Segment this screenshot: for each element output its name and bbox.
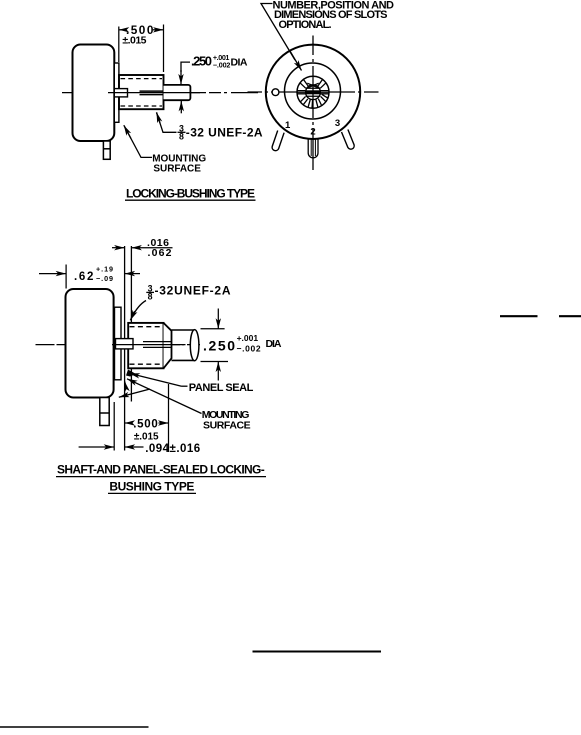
terminal stub (drawing 1): [103, 141, 110, 159]
dimension .62 +.19/-.09 (drawing 2): [39, 265, 140, 289]
middle circle: [285, 63, 341, 119]
bottom center rule: [253, 651, 382, 653]
svg-text:DIA: DIA: [231, 56, 248, 68]
dimension .250 DIA leader (drawing 1): [181, 62, 190, 113]
svg-text:3: 3: [335, 118, 340, 129]
svg-text:8: 8: [179, 132, 184, 142]
hub horizontal notches: [297, 91, 328, 94]
hub outer circle (bushing): [297, 76, 329, 108]
hub inner circle (shaft): [306, 85, 321, 100]
centerline (side view, drawing 1): [62, 92, 258, 94]
svg-text:SURFACE: SURFACE: [203, 420, 251, 432]
body outline (drawing 1): [73, 45, 115, 142]
shaft slot hidden lines (drawing 2): [143, 342, 172, 348]
svg-text:−.09: −.09: [96, 274, 113, 283]
terminal 1 (left lug): [272, 131, 284, 151]
svg-text:.500: .500: [133, 419, 158, 431]
svg-text:.094±.016: .094±.016: [145, 443, 200, 455]
dimension .016/.062 (top, drawing 2): [112, 247, 173, 249]
svg-text:±.015: ±.015: [134, 431, 159, 442]
panel line B: [130, 246, 132, 402]
panel line A (mounting surface plane): [124, 246, 126, 451]
body outline (drawing 2): [66, 289, 114, 398]
shaft (drawing 2): [172, 330, 199, 361]
dimension .094 +-.016 (drawing 2): [79, 402, 144, 451]
terminal 2 (center lug): [308, 139, 318, 158]
thread callout 3/8-32UNEF-2A (drawing 2): [130, 301, 146, 321]
svg-text:.250: .250: [191, 54, 212, 69]
svg-text:-32UNEF-2A: -32UNEF-2A: [155, 283, 231, 297]
svg-text:−.002: −.002: [213, 60, 231, 69]
collar boss (drawing 2): [116, 339, 134, 349]
shaft slot hidden lines (drawing 1): [140, 91, 164, 95]
mounting flange (drawing 1): [114, 63, 119, 122]
outer circle (end view body): [266, 45, 360, 139]
svg-text:OPTIONAL.: OPTIONAL.: [279, 19, 332, 31]
leader from note to hub: [261, 4, 302, 71]
bottom left rule: [0, 726, 149, 728]
dimension .500 +-.015 (drawing 2): [125, 384, 169, 452]
svg-text:8: 8: [148, 292, 153, 302]
panel seal label + leader: [130, 373, 188, 386]
mounting surface label (drawing 1): [124, 125, 152, 157]
svg-text:+.001: +.001: [237, 333, 259, 343]
svg-text:LOCKING-BUSHING TYPE: LOCKING-BUSHING TYPE: [126, 187, 255, 201]
svg-text:BUSHING TYPE: BUSHING TYPE: [109, 479, 194, 493]
svg-text:SHAFT-AND PANEL-SEALED LOCKING: SHAFT-AND PANEL-SEALED LOCKING-: [57, 462, 265, 476]
centerline across shaft (drawing 1): [108, 92, 200, 94]
svg-text:SURFACE: SURFACE: [153, 164, 201, 175]
dimension .500 +-.015 (drawing 1): [119, 25, 164, 73]
svg-text:+.19: +.19: [96, 264, 113, 273]
bushing nose (panel seal taper): [164, 323, 172, 368]
svg-text:±.015: ±.015: [122, 34, 146, 46]
centerline (drawing 2): [36, 344, 201, 346]
threaded bushing (drawing 2): [128, 323, 163, 368]
stray rule right #1: [500, 315, 538, 317]
svg-text:-32 UNEF-2A: -32 UNEF-2A: [186, 126, 263, 140]
hub centerlines: [297, 76, 329, 109]
locating hole (left): [272, 89, 279, 96]
hub bowtie detail above slot: [307, 83, 318, 88]
threaded bushing (drawing 1): [119, 75, 164, 109]
stray rule right #2: [559, 315, 581, 317]
svg-text:DIA: DIA: [266, 338, 282, 350]
shaft (drawing 1): [164, 85, 191, 100]
svg-text:.250: .250: [203, 337, 235, 353]
thread callout 3/8-32 UNEF-2A (drawing 1): [157, 112, 177, 132]
collar boss at flange (drawing 1): [114, 89, 127, 97]
screwdriver slot (filled): [306, 90, 320, 94]
svg-text:−.002: −.002: [237, 343, 261, 353]
svg-text:.62: .62: [74, 271, 93, 283]
svg-text:2: 2: [310, 126, 315, 137]
terminal stub (drawing 2): [100, 398, 109, 426]
horizontal centerline (end view): [248, 91, 379, 93]
vertical centerline (end view): [312, 36, 314, 171]
dimension .250 DIA (drawing 2): [201, 309, 229, 381]
centerline across shaft (drawing 2): [112, 344, 184, 346]
svg-text:PANEL SEAL: PANEL SEAL: [189, 382, 254, 394]
mounting surface label + leaders (drawing 2): [119, 379, 202, 414]
svg-text:1: 1: [285, 120, 291, 131]
terminal 3 (right lug): [342, 130, 355, 150]
mounting flange (drawing 2): [115, 307, 122, 380]
panel seal wedge (black): [126, 370, 136, 377]
svg-text:.062: .062: [148, 247, 172, 259]
radial slots in hub: [300, 80, 328, 109]
